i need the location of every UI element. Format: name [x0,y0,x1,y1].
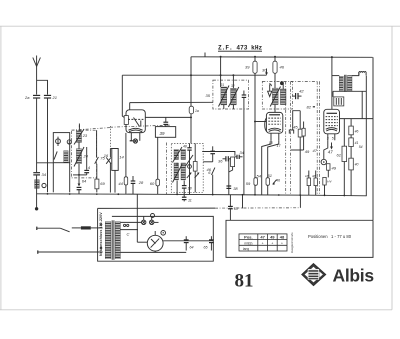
svg-text:64: 64 [82,178,87,183]
svg-text:65: 65 [204,246,208,250]
IF transformer box 1 [213,80,249,109]
svg-text:21: 21 [52,95,57,100]
svg-text:23: 23 [82,133,88,138]
trimmer arrow osc a [187,173,191,178]
svg-text:47: 47 [260,235,265,240]
wire rail1 left drop x=191 [190,57,192,106]
capacitor 38 [226,186,231,188]
svg-text:Netzanschluss 110-220V: Netzanschluss 110-220V [99,212,103,256]
svg-text:34: 34 [42,172,47,177]
capacitor above shield box 39 [165,117,167,122]
resistor 51 [268,140,279,178]
resistor 14 loop [112,149,118,171]
wire V1 grid2 line y117.4 [145,116,191,118]
node 9 [280,81,284,85]
chassis dash top [291,81,320,83]
svg-text:47: 47 [313,148,318,153]
main bus A [37,194,367,196]
wire R46 leads [274,57,276,61]
IF transformer box 2 [262,82,292,110]
svg-text:2: 2 [67,140,70,144]
svg-text:39: 39 [160,131,165,136]
resistor row b [314,178,317,186]
svg-text:82: 82 [307,105,312,110]
grid cap box V3 [334,97,344,106]
wire R39 tap to tube V2 grid [255,121,266,123]
wire y118.6 [340,118,374,120]
svg-text:36: 36 [218,159,223,164]
tube V3 [324,109,340,134]
capacitor 28 [132,176,134,181]
pin V1 h [139,133,141,141]
coil 23 [76,131,81,143]
transformer T1 secondary [115,222,120,259]
wire bottom link y91.3 [333,90,366,92]
osc coil a2 [181,150,186,160]
svg-text:42: 42 [299,89,304,94]
svg-text:69: 69 [100,181,105,186]
resistor 59 on R39 lead [254,178,258,186]
tube V1 [126,110,145,133]
resistor 61 [342,146,347,161]
svg-text:18: 18 [188,187,192,191]
node circled 10 [321,159,326,164]
wire x300 column [299,111,301,130]
wire V3 anode drop [331,57,333,109]
wire antenna lead [36,67,38,95]
heater line C [98,207,215,209]
heater symbol V1 [133,139,137,143]
wire box left down to bus [52,163,54,193]
resistor 44 [125,173,127,177]
wire osc coils [176,163,178,166]
shield box 39 [155,127,175,138]
trimmer arrow osc [186,155,194,166]
wire anode feed line y102.5 [130,101,213,103]
coil L1 antenna [35,180,40,189]
resistor 40 [349,158,354,170]
node circled 8 on heater line [151,214,155,218]
wire x191 down to osc box [190,114,192,144]
bottom right box [226,220,373,257]
anode V2 [269,114,280,116]
wire V2 pin13 to bus [262,140,271,195]
switch 16 [109,149,111,158]
wire connector A-C [242,195,244,209]
capacitor 10 [183,194,185,197]
wire right outer drop x=372.5 [372,57,374,220]
capacitor 34b [237,155,239,159]
node rail ticks [204,53,206,57]
svg-text:1a: 1a [195,109,199,113]
logo Albis diamond [302,264,326,286]
chassis dash line osc [165,143,167,195]
svg-text:11: 11 [188,198,192,202]
osc coil b [174,163,179,180]
diode 46 arrow [273,180,277,185]
wire speaker return [365,76,367,196]
svg-text:2a: 2a [24,95,30,100]
switch mains [60,228,69,232]
svg-text:48: 48 [183,144,187,148]
wire junction bar [73,174,87,176]
svg-text:60: 60 [150,181,155,186]
switch 75 [96,130,98,157]
variable capacitor 1 [56,137,61,146]
node circled d [42,183,46,187]
chassis dash line a [285,82,287,196]
svg-text:64: 64 [190,246,194,250]
resistor left of V3 [303,122,305,129]
wire +line y150 [291,149,304,151]
svg-text:40: 40 [355,163,359,167]
resistor x300 [298,129,302,137]
wire rail2 left drop x=122.3 [122,75,124,118]
node primary taps [100,224,102,226]
wire B+ line [163,240,213,242]
svg-text:28: 28 [138,180,144,185]
power box [98,208,214,261]
svg-text:3: 3 [327,137,329,141]
resistor 1a capsule [189,106,193,114]
node arrow 47 [331,143,333,148]
svg-text:54: 54 [359,145,363,149]
resistor 45 [289,130,293,134]
wire secondary top to speaker [352,72,359,76]
svg-text:47: 47 [328,150,333,155]
svg-text:46: 46 [355,130,359,134]
capacitor 65 [210,236,212,240]
node terminal dot [35,207,38,210]
grid box V1 [124,116,128,125]
wire det to bus [228,159,230,195]
capacitor 21 [44,95,51,98]
svg-text:Positionen 1 - 77 u 80: Positionen 1 - 77 u 80 [308,234,352,239]
IF1 secondary coil [231,88,237,105]
node circled 6 [161,231,166,236]
svg-text:34: 34 [240,150,245,155]
svg-text:4P: 4P [312,174,316,178]
svg-text:45: 45 [293,125,298,130]
IF2 secondary coil [280,89,286,105]
fuse [81,226,91,229]
resistor 46 top [273,61,277,73]
svg-text:Z.F. 473 kHz: Z.F. 473 kHz [218,45,263,52]
cathode V2 [268,128,281,130]
wire x362 [361,91,363,118]
tube V2 [266,112,282,133]
svg-text:54: 54 [257,174,262,179]
rectifier tube Gl [147,235,163,251]
svg-text:+: + [262,242,264,246]
diode det [268,85,272,97]
resistor 41 [349,138,354,147]
capacitor 33 [242,95,247,97]
anode V1 [134,118,140,127]
chassis dash line d [319,82,321,196]
wire x110 upper [109,126,111,149]
resistor 58 [194,143,196,161]
oscillator dotted box [171,143,203,192]
transformer T1 primary [105,222,111,259]
wire box right down to bus [69,163,71,193]
svg-text:44: 44 [118,181,123,186]
wire R45 feed [293,111,301,130]
osc coil a [174,150,179,160]
pin V2 17 [278,133,280,140]
capacitor 64 [185,236,187,240]
wire between coils [78,142,80,148]
wire IF1 primary lead [220,57,222,87]
svg-text:5: 5 [332,137,334,141]
capacitor 42 [296,93,298,99]
wire lamp leads [143,216,145,220]
svg-text:49: 49 [305,149,310,154]
output transformer secondary [347,76,352,92]
capacitor on arrow wire [77,187,82,189]
pin V3 a [327,134,329,141]
grid dashes V3 [326,117,338,126]
transformer core [344,75,346,92]
svg-text:HV: HV [327,180,332,184]
svg-text:63: 63 [234,207,238,211]
wire det link [203,161,213,163]
resistor 60 [157,137,159,179]
svg-text:49: 49 [270,235,275,240]
resistor row c [323,177,326,185]
wire to grid cap [332,91,334,97]
node circled osc [188,165,192,169]
svg-text:lang: lang [243,247,249,251]
svg-text:Pos.: Pos. [244,235,252,240]
wire IF2 to V2 [274,105,276,113]
node circled 2 [67,140,71,144]
mains switch lead top [36,227,38,230]
wire antenna line to terminal [36,175,38,209]
capacitor 46 column [212,146,214,151]
capacitor 63 [229,195,231,207]
beam plate V2 [265,118,267,132]
band switch box [53,133,69,163]
svg-text:49: 49 [332,166,337,171]
svg-text:+: + [271,242,273,246]
wire IF1 secondary lead [232,75,234,88]
wire top rail 2 [122,74,266,76]
capacitor 34 [33,173,40,175]
wire antenna branch to C21 [37,80,48,94]
svg-text:81: 81 [235,271,254,292]
coil L2 [64,151,68,163]
wire link to band switch box [37,162,54,164]
wire osc to det line [202,152,235,156]
speaker [359,72,366,76]
wire drop into V1 top [129,103,131,110]
wire heater row [120,221,141,223]
pin V1 k [130,133,132,141]
svg-text:Albis: Albis [333,266,375,286]
wire bus drop to power box [136,194,138,242]
cathode V3 [326,128,338,130]
svg-text:61: 61 [337,153,341,158]
switch S1 [54,151,57,159]
table positions [239,234,287,251]
osc coil b2 [181,163,186,180]
wire resistor stack column [350,119,352,127]
svg-text:16: 16 [104,153,109,158]
wire V1 cathode lead to bus [125,133,127,173]
resistor 69 [96,164,98,179]
svg-text:mit(s): mit(s) [244,241,252,245]
output transformer primary [332,75,339,77]
capacitor 18 [183,181,185,186]
wire R39 leads [254,57,256,61]
svg-text:+: + [281,242,283,246]
capacitor 4 [86,147,88,170]
svg-text:24: 24 [83,154,89,159]
chassis dash line b [290,82,292,195]
wire to circled node [324,140,328,159]
tuner dashed box [71,130,96,178]
trimmer arrow osc b [195,173,199,178]
capacitor 2a [33,95,40,98]
svg-text:38: 38 [233,186,238,191]
IF1 primary coil [221,87,227,105]
svg-text:14: 14 [119,154,124,159]
svg-text:Ausgleichstrafo: Ausgleichstrafo [290,232,294,253]
svg-text:46: 46 [280,65,285,70]
wire grid line y125 [78,124,80,128]
resistor 46b [349,126,354,135]
chassis dash-dot line left [72,128,111,131]
wire rect bottom [120,251,186,253]
wire antenna line down [36,98,38,172]
cathode V1 [129,128,143,130]
resistor small below [327,164,330,171]
switch 6 [212,168,215,175]
lamp a [142,220,146,224]
lamp b [150,220,154,224]
node arrow to bus [78,175,80,185]
pin V3 b [334,134,336,141]
antenna [33,56,41,67]
svg-text:C: C [127,232,130,237]
svg-text:48: 48 [280,235,285,240]
wire grid hook [269,84,271,87]
grid dashes V2 [268,118,281,124]
svg-text:1P: 1P [305,174,309,178]
svg-text:32: 32 [231,84,235,88]
mains lead bottom [37,250,39,253]
wire C21 line down [47,98,49,192]
svg-text:39: 39 [245,65,250,70]
svg-text:59: 59 [246,181,251,186]
svg-text:46: 46 [276,179,280,183]
grid dashes V1 [128,118,143,120]
svg-text:4: 4 [88,165,91,170]
transformer T1 core [111,220,113,259]
coil 24 [76,149,81,164]
node bus junction dots [47,193,346,196]
anode V3 [327,112,338,114]
svg-text:35: 35 [206,93,211,98]
wire coil24 to junction [78,164,80,175]
resistor 37 [231,157,235,167]
IF2 primary coil [272,88,278,105]
svg-text:51: 51 [268,173,272,178]
capacitor 48 [189,143,191,147]
resistor 39 [253,61,257,73]
resistor row a [307,178,310,186]
wire top rail 1 [191,56,373,59]
chassis dash line c [316,82,318,196]
pin V2 13 [270,133,272,140]
